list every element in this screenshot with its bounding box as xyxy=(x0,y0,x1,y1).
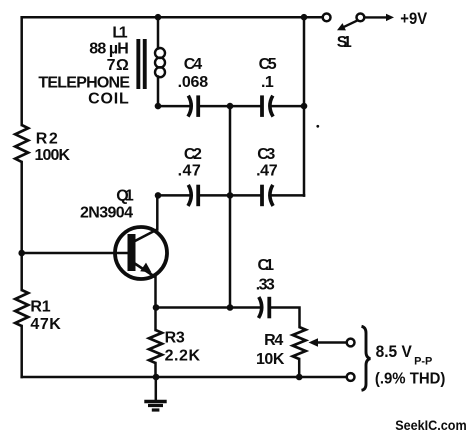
svg-text:C4: C4 xyxy=(184,56,202,73)
svg-text:R2: R2 xyxy=(36,131,58,148)
svg-text:COIL: COIL xyxy=(88,91,129,108)
svg-text:SeekIC.com: SeekIC.com xyxy=(395,418,467,433)
svg-text:.47: .47 xyxy=(256,163,278,180)
svg-text:100K: 100K xyxy=(35,147,71,164)
svg-text:2N3904: 2N3904 xyxy=(80,205,133,222)
svg-text:TELEPHONE: TELEPHONE xyxy=(38,75,130,92)
svg-text:8.5 V: 8.5 V xyxy=(376,343,412,361)
svg-text:L1: L1 xyxy=(112,24,127,41)
svg-text:Q1: Q1 xyxy=(116,188,134,205)
svg-text:.068: .068 xyxy=(178,74,209,91)
svg-text:.47: .47 xyxy=(178,163,201,180)
svg-text:R4: R4 xyxy=(264,332,283,349)
svg-text:+9V: +9V xyxy=(400,10,427,28)
svg-text:C3: C3 xyxy=(257,146,275,163)
svg-text:C2: C2 xyxy=(184,146,202,163)
svg-text:10K: 10K xyxy=(256,351,285,368)
svg-text:.33: .33 xyxy=(256,277,275,294)
svg-text:.1: .1 xyxy=(261,74,274,91)
svg-text:C1: C1 xyxy=(258,257,275,274)
svg-text:(.9% THD): (.9% THD) xyxy=(375,370,446,387)
svg-text:2.2K: 2.2K xyxy=(165,348,201,365)
svg-text:R1: R1 xyxy=(30,299,50,316)
svg-text:S1: S1 xyxy=(337,34,352,51)
svg-text:88 µH: 88 µH xyxy=(89,41,129,58)
svg-text:47K: 47K xyxy=(30,316,61,333)
svg-text:7 Ω: 7 Ω xyxy=(107,57,129,74)
svg-text:C5: C5 xyxy=(259,56,277,73)
svg-text:R3: R3 xyxy=(165,330,185,347)
svg-text:P-P: P-P xyxy=(414,356,432,368)
